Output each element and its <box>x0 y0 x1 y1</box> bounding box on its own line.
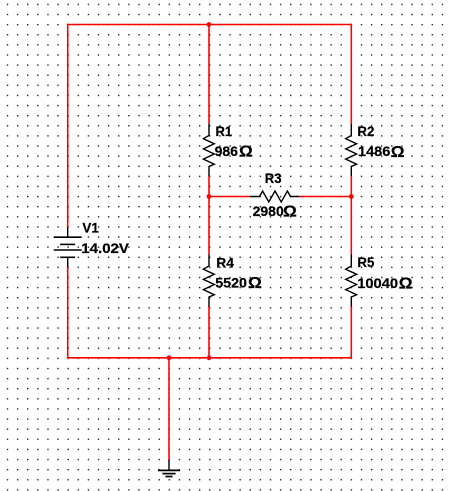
resistor R2 <box>346 124 357 176</box>
svg-text:Ω: Ω <box>248 275 262 292</box>
junction bottom ground tap <box>167 355 172 360</box>
svg-text:14.02V: 14.02V <box>81 241 129 256</box>
junction node A (R3 left) <box>207 194 212 199</box>
wire top (node 1) <box>67 24 352 26</box>
svg-text:R4: R4 <box>216 254 234 270</box>
wire middle lower (R4 to bottom) <box>208 306 210 359</box>
wire middle upper (top to R1) <box>208 24 210 124</box>
svg-text:2980: 2980 <box>253 203 284 219</box>
svg-text:R1: R1 <box>216 123 233 139</box>
svg-text:V1: V1 <box>82 220 99 235</box>
wire right mid (R2 to R5 through node B) <box>350 176 352 255</box>
wire ground stem <box>168 358 170 461</box>
junction top middle <box>207 22 212 27</box>
svg-text:Ω: Ω <box>283 204 297 221</box>
resistor R3 <box>250 191 299 202</box>
junction bottom middle <box>207 355 212 360</box>
wire middle mid (R1 to R4 through node A) <box>208 176 210 255</box>
resistor R4 <box>203 255 214 307</box>
junction node B (R3 right) <box>349 194 354 199</box>
svg-text:1486: 1486 <box>358 144 390 160</box>
svg-text:5520: 5520 <box>215 275 247 291</box>
svg-text:10040: 10040 <box>357 276 398 292</box>
wire R3 right lead <box>299 196 351 198</box>
wire left lower (V1 minus to bottom) <box>67 267 69 359</box>
resistor R5 <box>346 255 357 307</box>
wire right upper (top to R2) <box>350 24 352 124</box>
wire right lower (R5 to bottom) <box>350 306 352 359</box>
resistor R1 <box>203 124 214 176</box>
wire R3 left lead <box>209 196 250 198</box>
wire bottom (ground net) <box>67 357 352 359</box>
svg-text:R2: R2 <box>357 124 374 139</box>
wire left upper (V1 plus to top) <box>67 24 69 228</box>
svg-text:Ω: Ω <box>239 144 253 161</box>
svg-text:R5: R5 <box>357 255 374 270</box>
svg-text:R3: R3 <box>265 171 282 186</box>
svg-text:Ω: Ω <box>391 144 405 161</box>
svg-text:986: 986 <box>215 143 239 159</box>
svg-text:Ω: Ω <box>399 275 413 292</box>
ground <box>158 460 180 477</box>
battery V1 <box>54 228 82 268</box>
